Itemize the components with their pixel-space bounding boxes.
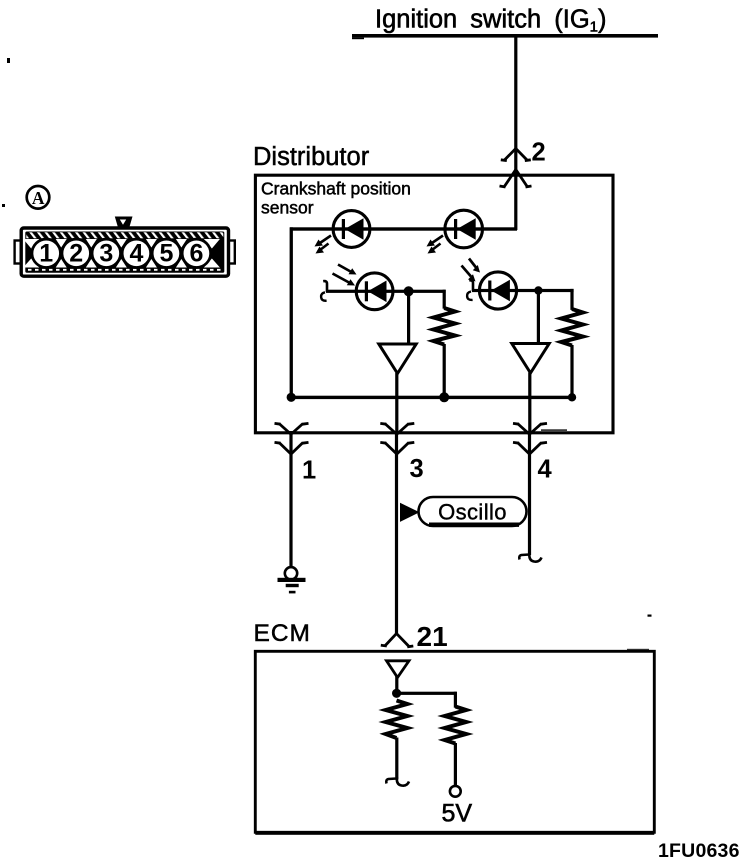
svg-text:4: 4 [129,240,143,268]
connector A housing [15,217,235,277]
svg-text:Oscillo: Oscillo [438,500,507,525]
resistor R1 [434,308,456,345]
resistor R2 [561,309,583,346]
cavity wedges [23,239,220,268]
junction node P2/R2/A2 [534,286,542,294]
svg-text:1: 1 [302,457,316,485]
wire: R1 to ground bus [443,344,446,398]
svg-text:A: A [32,188,45,208]
terminal 4 open end pigtail [519,553,541,562]
junction node P1/R1/A1 [404,286,414,296]
svg-text:3: 3 [99,240,113,268]
scan smudge on distributor bottom border [541,429,567,431]
svg-text:Crankshaft position: Crankshaft position [261,179,411,199]
scan speck left margin [2,204,5,207]
junction node bus/terminal1 leg [287,393,296,402]
terminal cavity 6 [182,239,210,267]
terminal 3 connector halves [380,423,414,454]
connector terminal 2 male arrow [500,170,532,188]
wire: junction to resistor R1 [409,290,446,293]
5V terminal circle [450,786,461,797]
resistor R3 (ECM pull-down) [386,701,408,739]
svg-text:1: 1 [39,240,53,268]
svg-text:5V: 5V [442,800,473,828]
svg-text:4: 4 [538,456,553,484]
svg-text:6: 6 [189,240,203,268]
housing lock tab top [115,217,133,229]
scan speck above ECM corner [648,615,652,617]
wire: left vertical branch (terminal 1 leg inside box) [290,227,293,398]
connector terminal 2 female fork [501,149,531,161]
connector A label circle [27,186,50,209]
oscilloscope tap arrow [400,503,420,522]
housing bottom dotted strip [28,269,222,271]
housing outer shell [21,228,228,276]
svg-text:2: 2 [532,139,546,167]
wire: R3 to open end [395,738,398,780]
terminal cavity 5 [152,239,180,267]
terminal cavity 3 [92,239,120,267]
wire: terminal 21 to junction [395,676,398,694]
R3 open end pigtail [386,777,409,786]
P2 incoming light arrows [462,266,472,277]
housing hatch strip [26,232,223,238]
wire: junction to resistor R4 branch [397,692,457,695]
photodiode P1 [321,265,410,310]
photodiode P2 [462,259,541,310]
LED D1 [315,211,370,254]
wire: ignition feed bus [352,34,658,38]
junction node ECM [392,689,401,698]
wire: terminal 3 to ECM terminal 21 [395,431,398,634]
wire: junction to resistor R2 [538,289,573,292]
terminal cavity 1 [32,239,60,267]
wire: terminal 4 open lead [528,431,531,555]
svg-text:5: 5 [159,240,173,268]
wire: terminal 2 leg down to LED row [514,176,517,230]
terminal 21 male half (hollow arrow) [387,661,410,678]
svg-text:Ignition switch (IG1): Ignition switch (IG1) [375,6,607,36]
terminal 4 connector halves [513,423,547,454]
terminal cavity 2 [62,239,90,267]
scan speck top-left [7,58,10,63]
scan smudge on ECM top border [627,649,649,651]
terminal cavity 4 [122,239,150,267]
svg-text:21: 21 [417,621,448,652]
wire: junction to buffer A2 [537,291,540,344]
housing side tab left [15,241,22,264]
svg-text:2: 2 [69,240,83,268]
LED D2 [427,210,483,253]
wire: A2 output to terminal 4 [528,373,531,433]
ECM box [255,651,654,832]
junction node R1/bus [439,392,449,402]
resistor R4 (ECM pull-up) [445,707,467,744]
svg-text:ECM: ECM [254,620,311,647]
terminal 21 female fork [381,634,414,647]
terminal 1 connector halves [275,423,309,454]
wire: P1 row [326,290,410,293]
svg-text:sensor: sensor [261,198,314,218]
housing inner face [25,232,224,273]
ground symbol [278,567,306,593]
distributor box [255,175,613,433]
junction node R2/bus [568,393,576,401]
buffer amplifier A1 [379,344,416,374]
wire: LED row horizontal [290,227,517,230]
svg-text:3: 3 [410,455,424,483]
wire: R4 to 5V terminal [454,743,457,786]
wire: junction to buffer A1 [407,291,410,344]
buffer amplifier A2 [512,344,549,374]
svg-text:1FU0636: 1FU0636 [658,840,740,862]
wire: R2 to ground bus [570,345,573,399]
housing side tab right [228,241,235,264]
P2 open end hook [469,280,473,291]
P1 open end hook [323,281,327,292]
svg-text:Distributor: Distributor [253,143,370,171]
P1 incoming light arrows [333,274,350,283]
wire: A1 output to terminal 3 [395,373,398,432]
Oscillo capsule [419,497,527,527]
wire: P2 row [472,289,540,292]
ground bus wire [290,396,574,399]
wire: ignition switch to distributor terminal 2 [514,36,517,176]
wire: terminal 1 to ground [289,431,292,567]
